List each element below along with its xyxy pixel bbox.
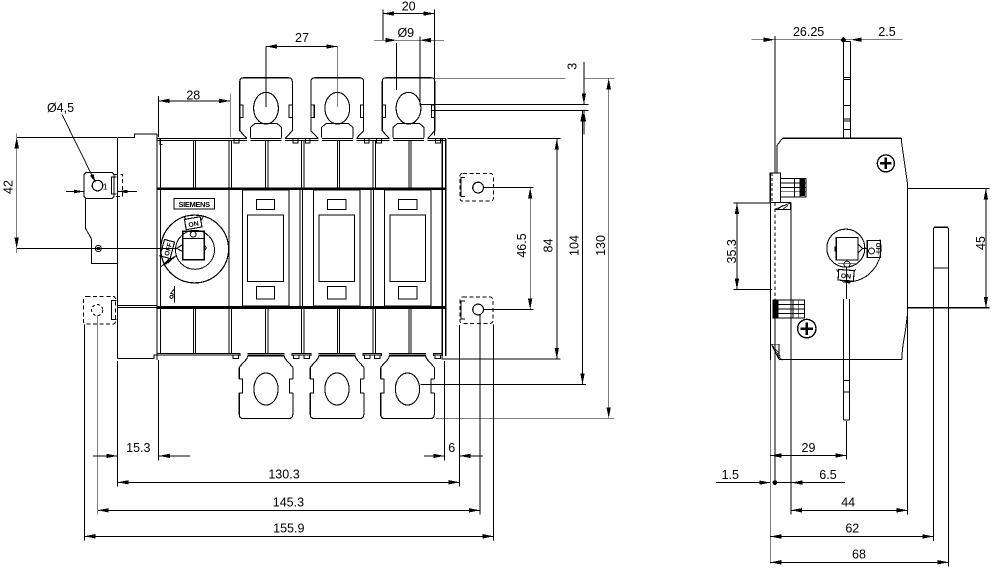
flange strip top edge [118,134,157,138]
top terminal lug at x=408.5 [382,78,435,131]
upper clip wedge hatching [775,203,791,210]
pole 3 cover bottom vent [399,287,417,299]
bottom rib row vertical fins [192,309,194,353]
upper clip step [770,201,791,203]
rear terminal shroud tick [934,267,949,269]
dimension 20 [382,10,384,41]
dimension 145.3 [97,316,99,515]
svg-text:42: 42 [1,180,15,194]
top-left fixing tab hidden edge [114,175,123,197]
dimension 28 [158,96,160,137]
front view: case top edge [157,138,446,140]
svg-text:Ø4,5: Ø4,5 [47,101,74,115]
dimension 104 [420,383,586,385]
right bottom fixing hole [473,304,484,315]
clip front hidden line [774,202,776,300]
svg-text:45: 45 [974,236,988,250]
dimension 3 (wire thickness) [583,62,585,104]
svg-text:68: 68 [852,548,866,562]
dimension 84 [448,138,561,140]
svg-text:2.5: 2.5 [878,25,895,39]
right bottom fixing tab (hidden) [460,297,493,323]
svg-text:6: 6 [448,441,455,455]
leader line for diameter 4,5 [62,115,95,182]
pole 1 cover top vent [256,200,274,210]
right top fixing tab slot bracket [461,177,465,196]
svg-text:OFF: OFF [874,243,880,255]
front view: case right edge [441,139,443,356]
tab gap dimension arrows [66,191,84,193]
bottom lug hole at x=266.0 [254,373,278,405]
terminal strip wire top line [421,103,588,105]
dimension 155.9 [84,325,86,541]
svg-text:SIEMENS: SIEMENS [178,200,210,209]
section divider pair pole1/pole2 [299,190,301,306]
dimension 15.3 [158,360,160,460]
bottom-left fixing hole (hidden) [92,305,103,316]
svg-text:104: 104 [568,235,582,256]
section divider left of pole 1 [228,190,230,306]
front view: case left edge [156,134,158,360]
handle centre leader line [17,248,177,250]
pole 3 cover window [390,215,426,282]
side view rear edge [907,183,909,515]
bottom lug hole at x=407.5 [395,373,419,405]
shaft segment ticks upper [843,76,850,78]
bottom terminal lug at x=337.0 [310,367,364,418]
handle shaft square [183,231,204,260]
flange strip hidden case edges [118,305,157,307]
dimension 29 [769,360,771,564]
dimension 42 [16,134,18,254]
rotary handle inner circle [176,230,215,269]
handle drive shaft lower [842,299,844,420]
svg-text:84: 84 [541,239,555,253]
dimension 6.5 [776,482,846,484]
top lug hole at x=408.5 [396,92,421,124]
upper DIN clip spring [780,178,806,197]
front view: case bottom thick band [157,306,446,309]
dimension 130 [383,77,566,79]
right top fixing tab (hidden) [460,173,493,201]
lower clip wedge hatching [772,344,780,359]
top terminal lug at x=266.0 [240,78,293,131]
svg-text:15.3: 15.3 [126,441,150,455]
pole 3 cover top vent [399,200,417,210]
right tab leader top [484,187,531,189]
front view: case bottom edge [157,352,442,354]
handle shaft right nub [204,246,206,251]
svg-text:28: 28 [186,88,200,102]
terminal strip wire bottom line [432,110,589,112]
padlock symbol below handle [174,286,176,303]
side view top-right step and diagonal [902,138,908,183]
top-left fixing tab [84,173,114,199]
dimension 26.25 [751,39,902,41]
side view handle square base line [836,259,858,261]
shaft segment ticks lower [843,380,849,382]
right top fixing hole [473,182,484,193]
top terminal lug at x=337.3 [311,78,364,131]
bottom lug top edge and shoulders at x=266.0 [248,355,285,357]
lower DIN clip spring [773,300,804,318]
side view moulding face [790,202,792,359]
svg-text:20: 20 [402,0,416,14]
pole 2 cover window [319,215,355,282]
flange strip bottom edge [118,355,157,359]
top-left fixing hole [92,180,103,191]
side view OFF tab [867,240,880,257]
svg-text:145.3: 145.3 [273,496,304,510]
top lug hole at x=266.0 [254,92,279,124]
svg-text:29: 29 [802,441,816,455]
front view: case bottom right step [442,355,448,359]
svg-text:130: 130 [594,235,608,256]
svg-text:3: 3 [565,63,579,70]
lower fixing screw [798,319,816,337]
SIEMENS label plate [174,198,215,209]
top lug hole at x=337.3 [325,92,350,124]
svg-text:Ø9: Ø9 [397,26,414,40]
side view ON tab [838,269,854,281]
dimension 44 [791,509,908,511]
handle lock hatching [161,259,169,267]
svg-text:OFF: OFF [164,242,174,257]
handle drive shaft upper [842,41,844,138]
svg-text:46.5: 46.5 [515,233,529,257]
dimension 6.5 dot [773,481,777,485]
handle shaft square divider [183,237,204,239]
svg-text:26.25: 26.25 [793,25,824,39]
side view handle left notch [835,247,837,251]
side view case top edge [783,137,902,139]
handle shaft small circle [190,231,196,237]
dimension 35.3 [734,202,771,204]
right bottom fixing tab slot bracket [461,301,465,319]
pole 1 cover bottom vent [256,287,274,299]
pole 1 cover window [248,215,284,282]
extension clip front face [774,36,776,173]
side view rear lower slant [902,315,908,359]
pole 1 cover outline [242,190,289,306]
rotary handle outer circle [161,215,229,283]
front view: case top thick band [157,187,446,190]
extension moulding face [790,360,792,515]
dimension 62 [770,536,933,538]
svg-text:44: 44 [841,496,855,510]
handle pointer funnel [177,245,183,252]
svg-text:35.3: 35.3 [725,239,739,263]
bottom lug top edge and shoulders at x=337.0 [319,355,356,357]
pole 3 cover outline [385,190,432,306]
side view top-left chamfer [777,138,783,173]
svg-text:6.5: 6.5 [819,468,836,482]
svg-text:ON: ON [841,273,852,281]
svg-text:62: 62 [845,522,859,536]
left bracket outline [85,199,117,264]
pole 2 cover bottom vent [328,287,346,299]
ON position tab [184,217,202,230]
side view shaft centreline [846,267,848,299]
svg-text:155.9: 155.9 [273,522,304,536]
OFF position tab [160,239,174,258]
bottom-left fixing tab slot bracket [112,301,117,320]
side view front face [769,173,771,360]
side view handle small circle [844,261,850,267]
dimension 130.3 [117,361,119,487]
side view handle funnel [858,244,862,253]
front panel screw [877,155,894,172]
bottom terminal lug at x=407.5 [381,367,435,418]
dimension 68 [770,561,948,563]
pole 2 cover top vent [328,200,346,210]
bottom terminal lug at x=266.0 [239,367,293,418]
bottom-left fixing tab (hidden) [84,296,116,324]
top-left fixing tab slot bracket [112,177,117,194]
right tab leader bottom [484,309,531,311]
dimension 1.5 [716,482,770,484]
svg-text:1: 1 [103,182,108,192]
rear terminal shroud [934,227,949,567]
top rib row vertical fins [192,140,194,187]
upper DIN clip housing [770,173,781,202]
section divider pair pole2/pole3 [370,190,372,306]
svg-text:130.3: 130.3 [268,468,299,482]
pole 2 cover outline [313,190,360,306]
leader dot on bracket [95,246,101,252]
top rib row left step [157,139,163,145]
side view handle circle [827,229,865,267]
svg-text:1.5: 1.5 [722,468,739,482]
handle rotation arc [842,240,881,282]
dimension 46.5 [484,187,534,189]
side view bottom edge [779,358,902,360]
bottom lug top edge and shoulders at x=407.5 [389,355,426,357]
svg-text:27: 27 [295,31,309,45]
dimension diameter 9 [396,43,398,90]
flange plate left edge [117,137,119,358]
dimension 27 [265,47,267,108]
bottom lug hole at x=337.0 [325,373,349,405]
dimension 45 [908,188,990,190]
side view handle square [836,238,858,261]
dimension 6 [424,455,444,457]
